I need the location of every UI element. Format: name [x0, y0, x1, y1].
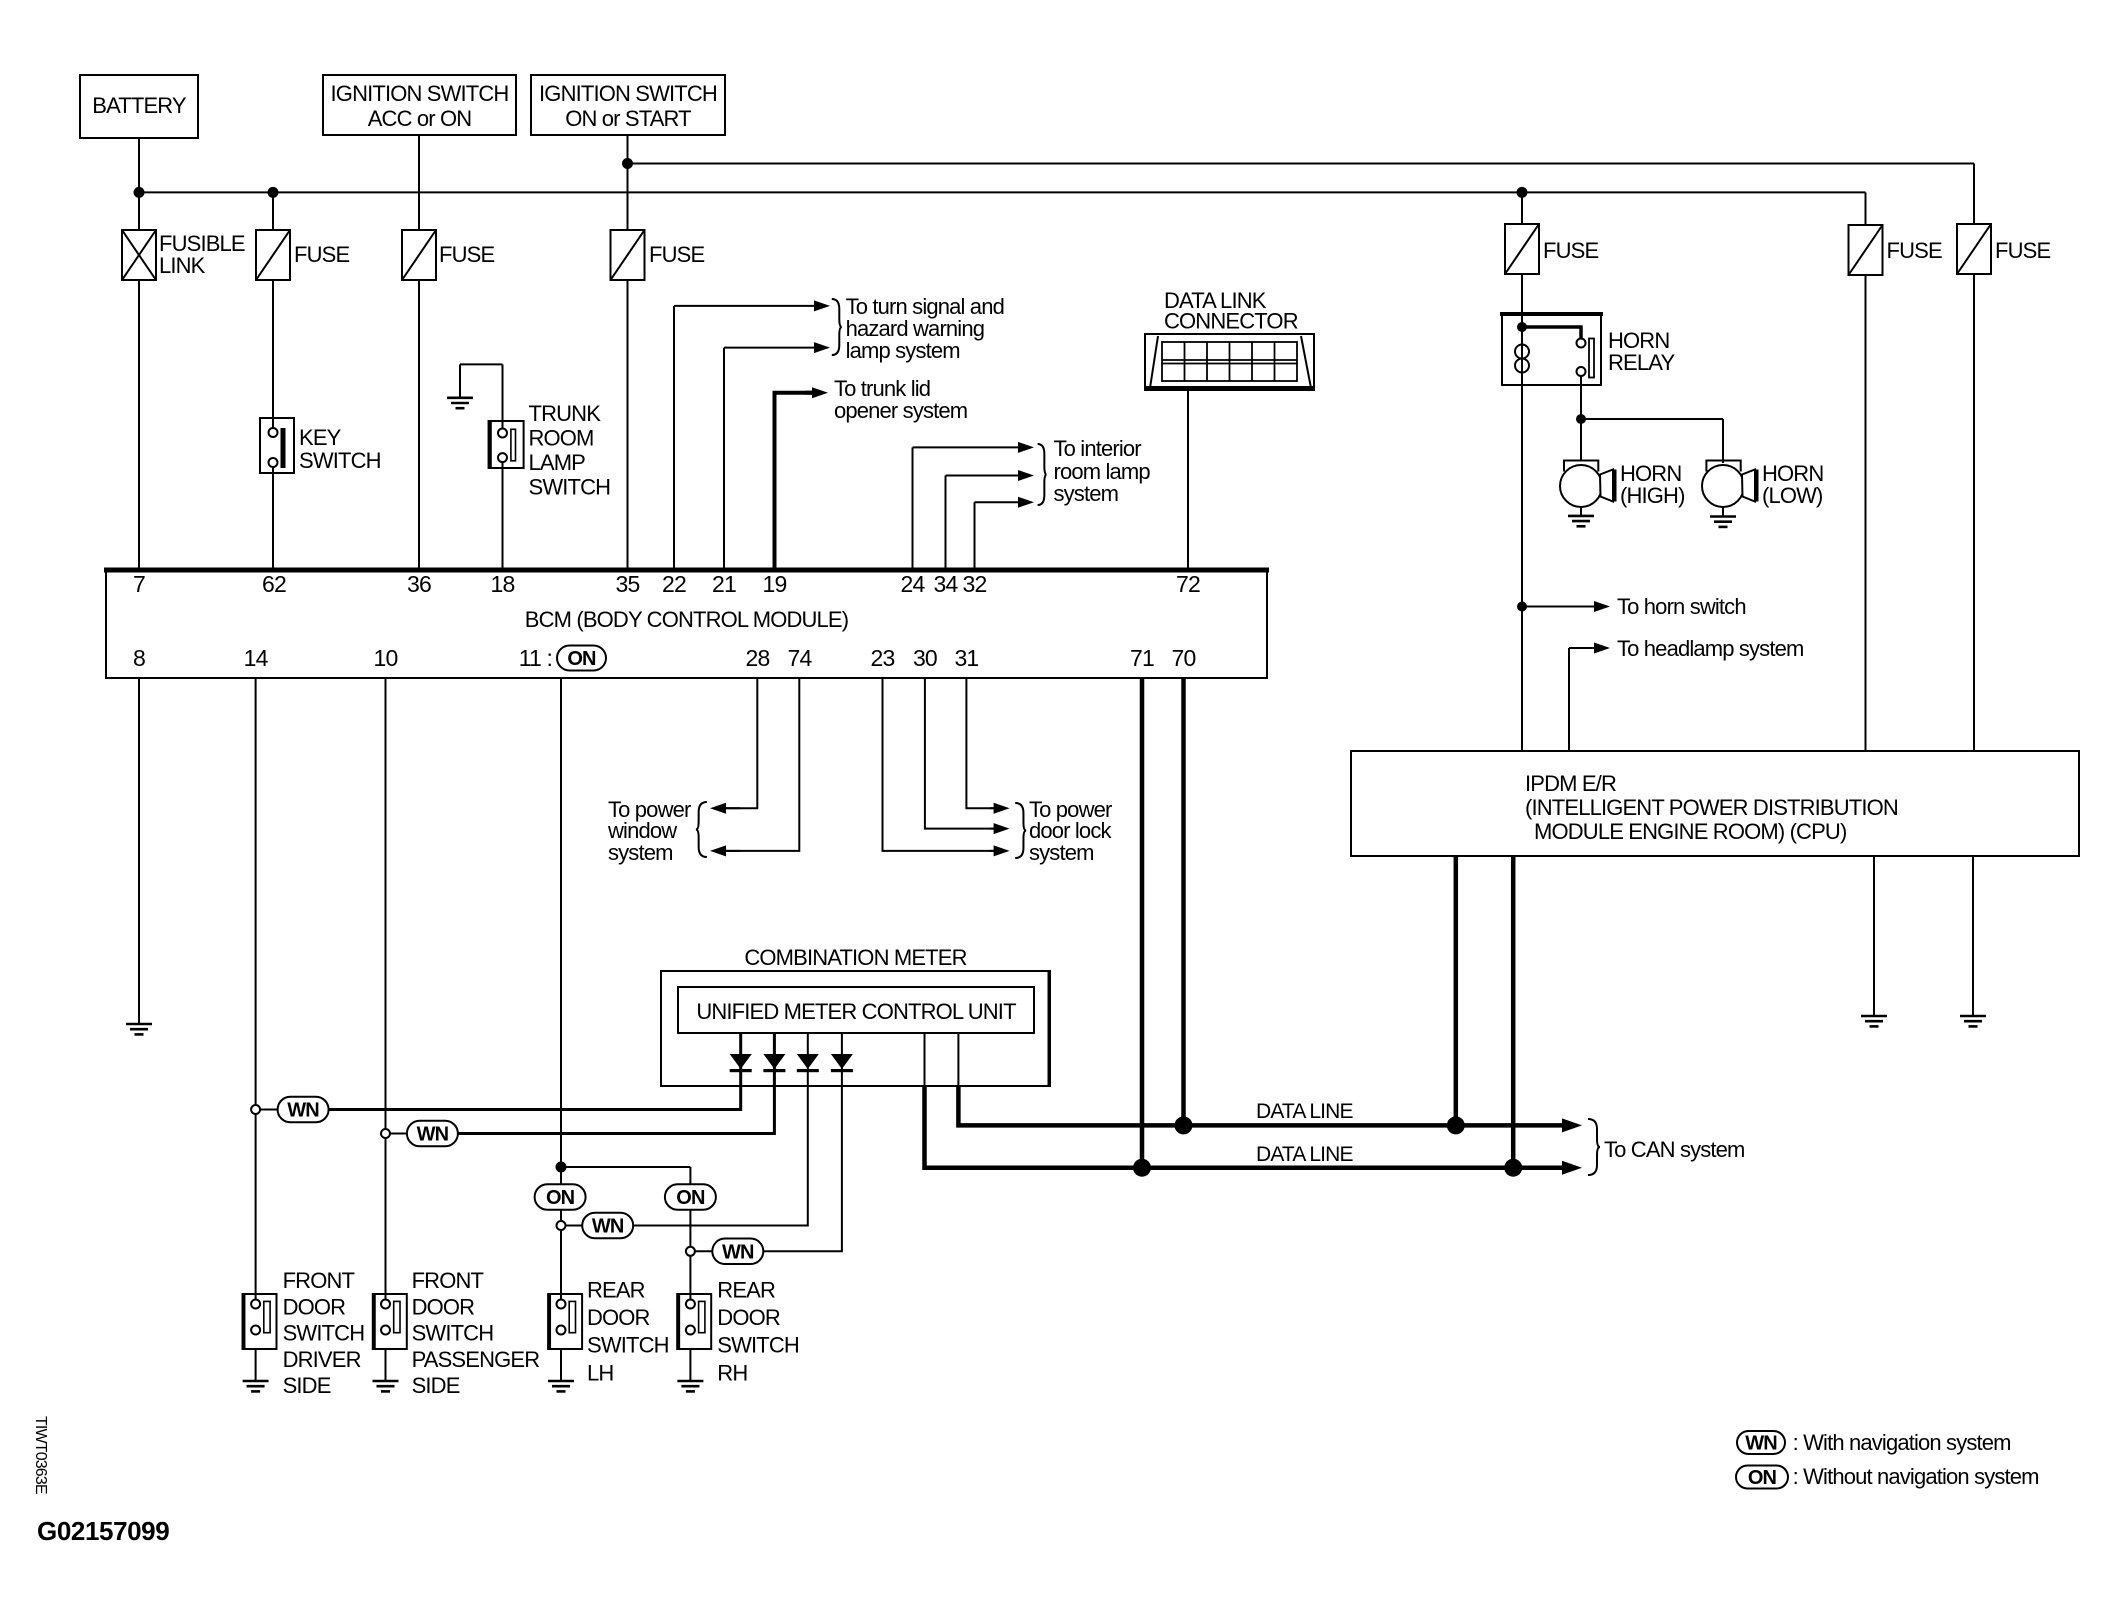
svg-text:32: 32 [963, 571, 987, 597]
svg-text:DATA LINE: DATA LINE [1256, 1143, 1353, 1166]
svg-text:FUSE: FUSE [294, 242, 349, 267]
svg-text:DOOR: DOOR [717, 1305, 780, 1330]
svg-text:36: 36 [407, 571, 431, 597]
svg-text:SIDE: SIDE [412, 1373, 460, 1398]
svg-text:FUSE: FUSE [439, 242, 494, 267]
svg-text:72: 72 [1176, 571, 1200, 597]
svg-text:WN: WN [722, 1241, 754, 1263]
svg-text:TIWT0363E: TIWT0363E [32, 1416, 49, 1494]
svg-text:DOOR: DOOR [412, 1294, 475, 1319]
svg-text:opener system: opener system [834, 398, 967, 423]
svg-text:FRONT: FRONT [283, 1268, 355, 1293]
svg-text:28: 28 [746, 645, 770, 671]
svg-text:To horn switch: To horn switch [1617, 594, 1746, 619]
svg-text:ON or START: ON or START [565, 106, 691, 131]
svg-text:70: 70 [1172, 645, 1196, 671]
svg-text:19: 19 [763, 571, 787, 597]
svg-text:system: system [608, 840, 673, 865]
svg-text:WN: WN [417, 1124, 449, 1146]
svg-text:REAR: REAR [717, 1278, 775, 1303]
svg-text:IGNITION SWITCH: IGNITION SWITCH [539, 81, 717, 106]
svg-text:ON: ON [567, 648, 596, 670]
svg-text:(HIGH): (HIGH) [1620, 483, 1685, 508]
svg-text:SIDE: SIDE [283, 1373, 331, 1398]
svg-text:WN: WN [592, 1216, 624, 1238]
svg-text:CONNECTOR: CONNECTOR [1164, 309, 1298, 334]
svg-text:SWITCH: SWITCH [717, 1333, 799, 1358]
svg-text:DOOR: DOOR [587, 1305, 650, 1330]
svg-text:COMBINATION METER: COMBINATION METER [744, 945, 966, 970]
svg-text:UNIFIED METER CONTROL UNIT: UNIFIED METER CONTROL UNIT [696, 999, 1016, 1024]
svg-text:22: 22 [662, 571, 686, 597]
svg-text:FUSE: FUSE [1887, 238, 1942, 263]
svg-text:LINK: LINK [159, 253, 206, 278]
svg-text:DOOR: DOOR [283, 1294, 346, 1319]
svg-text:IPDM E/R: IPDM E/R [1525, 771, 1616, 796]
svg-text:To CAN system: To CAN system [1604, 1137, 1745, 1162]
svg-text:(LOW): (LOW) [1762, 483, 1823, 508]
svg-text:RELAY: RELAY [1608, 350, 1675, 375]
svg-text:FUSE: FUSE [1543, 238, 1598, 263]
svg-text:8: 8 [133, 645, 145, 671]
svg-text:: With navigation system: : With navigation system [1793, 1430, 2011, 1455]
svg-text:35: 35 [616, 571, 640, 597]
svg-text:FRONT: FRONT [412, 1268, 484, 1293]
svg-text:FUSE: FUSE [649, 242, 704, 267]
svg-text:LAMP: LAMP [529, 450, 586, 475]
svg-text:WN: WN [287, 1100, 319, 1122]
svg-text:LH: LH [587, 1360, 613, 1385]
svg-text:74: 74 [788, 645, 813, 671]
svg-text:KEY: KEY [299, 425, 342, 450]
svg-text:DATA LINE: DATA LINE [1256, 1100, 1353, 1123]
svg-text:BATTERY: BATTERY [92, 93, 187, 118]
svg-text:MODULE ENGINE ROOM) (CPU): MODULE ENGINE ROOM) (CPU) [1534, 819, 1846, 844]
svg-text:31: 31 [954, 645, 978, 671]
svg-text:FUSE: FUSE [1995, 238, 2050, 263]
svg-text:SWITCH: SWITCH [587, 1333, 669, 1358]
svg-text:18: 18 [491, 571, 515, 597]
svg-text:ACC or ON: ACC or ON [368, 106, 472, 131]
svg-text:SWITCH: SWITCH [412, 1321, 494, 1346]
svg-text:30: 30 [913, 645, 937, 671]
svg-text:G02157099: G02157099 [37, 1516, 169, 1546]
svg-text:RH: RH [717, 1360, 747, 1385]
svg-text:21: 21 [712, 571, 736, 597]
svg-text:SWITCH: SWITCH [299, 448, 381, 473]
svg-text:system: system [1029, 840, 1094, 865]
svg-text:SWITCH: SWITCH [283, 1321, 365, 1346]
svg-text:ON: ON [676, 1187, 705, 1209]
svg-text:SWITCH: SWITCH [529, 474, 611, 499]
svg-text:To interior: To interior [1054, 436, 1142, 461]
svg-text:REAR: REAR [587, 1278, 645, 1303]
svg-text:To headlamp system: To headlamp system [1617, 636, 1803, 661]
svg-text:62: 62 [262, 571, 286, 597]
svg-text:11 :: 11 : [519, 645, 552, 671]
svg-text:23: 23 [871, 645, 895, 671]
svg-text:14: 14 [244, 645, 269, 671]
svg-text:34: 34 [934, 571, 959, 597]
svg-text:ROOM: ROOM [529, 426, 594, 451]
svg-text:PASSENGER: PASSENGER [412, 1347, 540, 1372]
svg-text:ON: ON [1748, 1467, 1777, 1489]
svg-text:24: 24 [901, 571, 926, 597]
svg-text:ON: ON [546, 1187, 575, 1209]
svg-text:IGNITION SWITCH: IGNITION SWITCH [331, 81, 509, 106]
svg-text:system: system [1054, 481, 1119, 506]
svg-text:lamp system: lamp system [846, 338, 960, 363]
svg-text:71: 71 [1130, 645, 1154, 671]
svg-text:7: 7 [133, 571, 145, 597]
svg-text:DRIVER: DRIVER [283, 1347, 361, 1372]
svg-text:(INTELLIGENT POWER DISTRIBUTIO: (INTELLIGENT POWER DISTRIBUTION [1525, 795, 1898, 820]
svg-text:TRUNK: TRUNK [529, 401, 602, 426]
svg-text:: Without navigation system: : Without navigation system [1793, 1464, 2039, 1489]
svg-text:BCM (BODY CONTROL MODULE): BCM (BODY CONTROL MODULE) [525, 607, 848, 632]
svg-text:WN: WN [1745, 1433, 1777, 1455]
svg-text:10: 10 [374, 645, 398, 671]
